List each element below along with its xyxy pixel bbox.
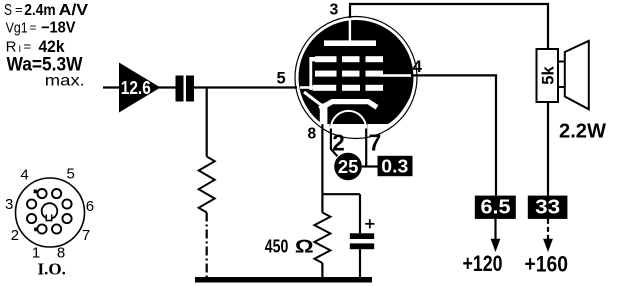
svg-text:12.6: 12.6	[121, 78, 151, 98]
svg-text:6.5: 6.5	[481, 197, 511, 219]
svg-text:=: =	[24, 39, 32, 54]
svg-text:7: 7	[82, 227, 90, 244]
svg-text:7: 7	[369, 130, 382, 156]
svg-text:=: =	[30, 20, 37, 34]
svg-text:+120: +120	[463, 251, 503, 276]
svg-text:6: 6	[86, 198, 94, 215]
svg-text:2.4m: 2.4m	[24, 2, 56, 19]
svg-text:2: 2	[11, 227, 19, 244]
svg-text:I.O.: I.O.	[38, 260, 66, 279]
svg-text:2.2W: 2.2W	[559, 121, 606, 143]
svg-text:5: 5	[67, 166, 75, 183]
svg-text:8: 8	[308, 125, 317, 142]
svg-text:0.3: 0.3	[381, 155, 408, 176]
svg-text:=: =	[15, 2, 23, 17]
svg-text:+160: +160	[525, 252, 569, 277]
svg-text:3: 3	[330, 1, 339, 18]
svg-text:4: 4	[413, 57, 423, 76]
svg-text:5k: 5k	[539, 66, 557, 85]
svg-text:25: 25	[338, 157, 359, 177]
svg-text:5: 5	[277, 69, 286, 87]
svg-text:−18V: −18V	[41, 19, 76, 36]
svg-text:S: S	[4, 2, 12, 19]
svg-text:33: 33	[535, 197, 560, 219]
svg-text:2: 2	[332, 130, 345, 156]
svg-text:Vg1: Vg1	[6, 19, 28, 36]
svg-text:Ω: Ω	[295, 235, 314, 256]
svg-text:3: 3	[5, 196, 13, 213]
svg-text:max.: max.	[45, 73, 85, 90]
svg-text:42k: 42k	[39, 38, 66, 56]
svg-text:4: 4	[20, 167, 28, 184]
svg-text:A/V: A/V	[59, 2, 89, 19]
svg-text:R: R	[6, 39, 17, 56]
svg-text:450: 450	[265, 235, 289, 256]
